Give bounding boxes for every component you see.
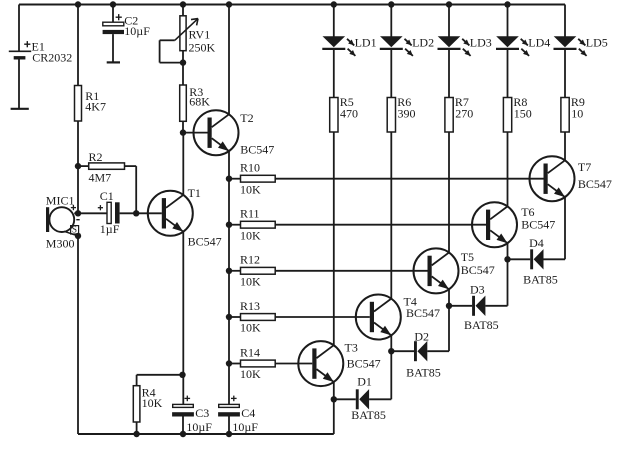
capacitor C1 (98, 189, 120, 236)
svg-text:10K: 10K (240, 228, 261, 242)
svg-text:10: 10 (571, 107, 583, 121)
svg-text:LD2: LD2 (412, 35, 434, 49)
svg-text:R2: R2 (89, 150, 103, 164)
wire T1 collector (182, 133, 184, 195)
node T2 emitter/R10 (226, 176, 232, 182)
transistor T7 (530, 156, 612, 201)
wire LD4 anode (507, 5, 509, 37)
svg-text:R12: R12 (240, 253, 260, 267)
svg-text:10K: 10K (240, 367, 261, 381)
wire R8 to T6 collector (507, 132, 509, 206)
wire R3 to T2 base node (182, 121, 184, 132)
potentiometer RV1 (160, 5, 216, 63)
transistor T3 (298, 340, 380, 386)
resistor R2 (89, 150, 125, 184)
svg-text:T5: T5 (461, 250, 474, 264)
svg-text:10µF: 10µF (232, 420, 258, 434)
battery E1 (9, 5, 73, 109)
svg-text:R11: R11 (240, 207, 260, 221)
svg-text:BC547: BC547 (347, 357, 381, 371)
svg-text:C3: C3 (195, 406, 209, 420)
svg-text:470: 470 (340, 107, 358, 121)
resistor R3 (180, 85, 211, 121)
svg-text:390: 390 (398, 107, 416, 121)
wire T2 emitter column (228, 151, 230, 404)
node mic S (75, 233, 81, 239)
wire R13 to transistor base (275, 316, 370, 318)
resistor R11 (240, 207, 275, 243)
node C3/ground (180, 431, 186, 437)
diode D2 (406, 330, 441, 380)
transistor T6 (472, 202, 555, 247)
resistor R5 (330, 95, 358, 132)
transistor T1 (148, 186, 222, 249)
node +V/LD1 (331, 1, 337, 7)
node T6 emitter/D3/D4 (504, 256, 510, 262)
wire R1 top (77, 5, 79, 86)
wire R4 bottom (136, 422, 138, 434)
svg-text:C1: C1 (100, 189, 114, 203)
svg-text:10K: 10K (240, 321, 261, 335)
svg-text:T1: T1 (188, 186, 201, 200)
wire R7 to T5 collector (448, 132, 450, 253)
wire C1 to T1 base (120, 212, 162, 214)
wire R12 left (229, 270, 241, 272)
svg-text:R10: R10 (240, 161, 260, 175)
wire R13 left (229, 316, 241, 318)
wire mic+ to C1 (78, 212, 107, 214)
svg-text:M300: M300 (46, 236, 75, 250)
wire T2 base (183, 132, 208, 134)
node R3/T2 base/T1 collector (180, 129, 186, 135)
svg-text:LD1: LD1 (355, 35, 377, 49)
diode D3 (464, 283, 499, 332)
svg-text:68K: 68K (189, 95, 210, 109)
node T4 emitter/D1/D2 (388, 348, 394, 354)
node +V/LD2 (388, 1, 394, 7)
node R4/ground (133, 431, 139, 437)
svg-text:10K: 10K (142, 396, 163, 410)
svg-text:MIC1: MIC1 (46, 194, 75, 208)
svg-text:1µF: 1µF (100, 222, 120, 236)
wire R2 node to mic+ (77, 166, 79, 213)
wire R6 to T4 collector (390, 132, 392, 299)
wire LD1 cathode to R5 (333, 50, 335, 98)
node T3 emitter/D1 (331, 396, 337, 402)
svg-text:CR2032: CR2032 (32, 50, 72, 64)
svg-text:10K: 10K (240, 274, 261, 288)
wire C4 bottom (228, 417, 230, 435)
svg-text:BC547: BC547 (406, 306, 440, 320)
svg-text:LD4: LD4 (528, 35, 550, 49)
capacitor C4 (218, 396, 258, 434)
wire LD5 cathode to R9 (564, 50, 566, 98)
svg-text:4M7: 4M7 (89, 170, 112, 184)
wire LD1 anode (333, 5, 335, 37)
diode D1 (351, 374, 386, 422)
resistor R7 (445, 95, 473, 132)
LED LD3 (438, 35, 492, 56)
transistor T5 (414, 248, 495, 293)
resistor R4 (133, 386, 162, 423)
resistor R9 (561, 95, 585, 132)
resistor R12 (240, 253, 275, 289)
microphone MIC1 (46, 194, 80, 251)
diode D4 (523, 236, 558, 286)
LED LD2 (380, 35, 434, 56)
svg-text:LD5: LD5 (586, 35, 608, 49)
node +V/R1 (75, 1, 81, 7)
wire R4 top link (137, 375, 183, 386)
svg-text:D2: D2 (414, 330, 429, 344)
svg-text:BAT85: BAT85 (351, 408, 386, 422)
svg-text:BAT85: BAT85 (464, 318, 499, 332)
wire T4 emitter (390, 335, 392, 351)
svg-text:250K: 250K (189, 40, 216, 54)
svg-text:LD3: LD3 (470, 35, 492, 49)
svg-text:10µF: 10µF (124, 24, 150, 38)
wire R5 to T3 collector (333, 132, 335, 345)
wire R2 left (78, 165, 89, 167)
svg-text:T2: T2 (240, 111, 253, 125)
transistor T4 (356, 295, 440, 340)
node T5 emitter/D2/D3 (446, 303, 452, 309)
capacitor C2 (103, 5, 151, 63)
svg-text:BAT85: BAT85 (523, 273, 558, 287)
node +V/RV1 (180, 1, 186, 7)
wire R14 to transistor base (275, 363, 312, 365)
node +V/LD3 (446, 1, 452, 7)
wire LD2 cathode to R6 (390, 50, 392, 98)
wire D1 cathode (334, 398, 356, 400)
wire D3 anode (485, 305, 507, 307)
wire LD4 cathode to R8 (507, 50, 509, 98)
node R2/C1/T1 base (133, 210, 139, 216)
LED LD5 (554, 35, 608, 56)
wire T5 emitter (448, 289, 450, 306)
resistor R13 (240, 299, 275, 335)
wire LD2 anode (390, 5, 392, 37)
node RV1 wiper/R3 (180, 59, 186, 65)
wire LD3 cathode to R7 (448, 50, 450, 98)
node +V/T2 collector (226, 1, 232, 7)
wire T6 emitter (507, 243, 509, 259)
LED LD4 (496, 35, 550, 56)
svg-text:4K7: 4K7 (85, 99, 106, 113)
wire R2 right to T1 base node (125, 166, 137, 213)
wire D2 anode (427, 350, 449, 352)
wire ground rail (78, 433, 334, 435)
wire D3 cathode (449, 305, 472, 307)
node T2 emitter/R13 (226, 314, 232, 320)
wire D4 anode (544, 258, 566, 260)
wire +V top supply rail (19, 4, 565, 6)
node T2 emitter/R14 (226, 360, 232, 366)
wire R11 left (229, 224, 241, 226)
svg-text:BC547: BC547 (240, 142, 274, 156)
resistor R6 (387, 95, 415, 132)
svg-text:R13: R13 (240, 299, 260, 313)
resistor R8 (503, 95, 531, 132)
wire D2 riser (448, 306, 450, 351)
node +V/C2 (110, 1, 116, 7)
node C4/ground (226, 431, 232, 437)
LED LD1 (322, 35, 376, 56)
transistor T2 (194, 110, 275, 156)
svg-text:BC547: BC547 (578, 177, 612, 191)
wire D1 anode (369, 398, 391, 400)
wire D1 riser (390, 351, 392, 399)
svg-text:BAT85: BAT85 (406, 366, 441, 380)
node T2 emitter/R12 (226, 268, 232, 274)
wire T2 collector to +V (228, 5, 230, 115)
node R1/R2 (75, 163, 81, 169)
capacitor C3 (172, 396, 212, 434)
svg-text:10K: 10K (240, 182, 261, 196)
svg-text:D1: D1 (357, 374, 372, 388)
svg-text:C4: C4 (241, 406, 255, 420)
wire D2 cathode (391, 350, 414, 352)
svg-text:T3: T3 (345, 340, 358, 354)
wire LD5 anode (564, 5, 566, 37)
wire LD3 anode (448, 5, 450, 37)
node mic+ / C1 (75, 210, 81, 216)
svg-text:BC547: BC547 (188, 235, 222, 249)
node T2 emitter/R11 (226, 222, 232, 228)
svg-text:BC547: BC547 (461, 263, 495, 277)
svg-text:R14: R14 (240, 345, 260, 359)
wire R1 bottom to R2 node (77, 121, 79, 166)
wire mic S to ground rail (77, 236, 79, 434)
svg-text:150: 150 (514, 107, 532, 121)
wire D4 cathode (508, 258, 531, 260)
node T1 emitter/R4 (179, 372, 185, 378)
wire C3 bottom (182, 417, 184, 435)
svg-text:D3: D3 (470, 283, 485, 297)
wire T3 emitter to ground (333, 382, 335, 434)
svg-text:S: S (72, 226, 77, 236)
wire R10 to transistor base (275, 178, 543, 180)
wire T1 emitter / C3 column (182, 232, 184, 405)
wire T7 emitter / D4 riser (564, 197, 566, 259)
svg-text:10µF: 10µF (186, 420, 212, 434)
wire R9 to T7 collector (564, 132, 566, 160)
wire R14 left (229, 363, 241, 365)
svg-text:270: 270 (455, 107, 473, 121)
wire R12 to transistor base (275, 270, 427, 272)
resistor R14 (240, 345, 275, 381)
wire R10 left (229, 178, 241, 180)
resistor R1 (75, 86, 106, 122)
svg-text:RV1: RV1 (189, 27, 211, 41)
svg-text:D4: D4 (529, 236, 544, 250)
svg-text:T7: T7 (578, 160, 591, 174)
wire D3 riser (507, 259, 509, 306)
svg-text:BC547: BC547 (521, 218, 555, 232)
wire R11 to transistor base (275, 224, 486, 226)
resistor R10 (240, 161, 275, 197)
node +V/LD4 (504, 1, 510, 7)
wire RV1 to R3 (182, 63, 184, 85)
